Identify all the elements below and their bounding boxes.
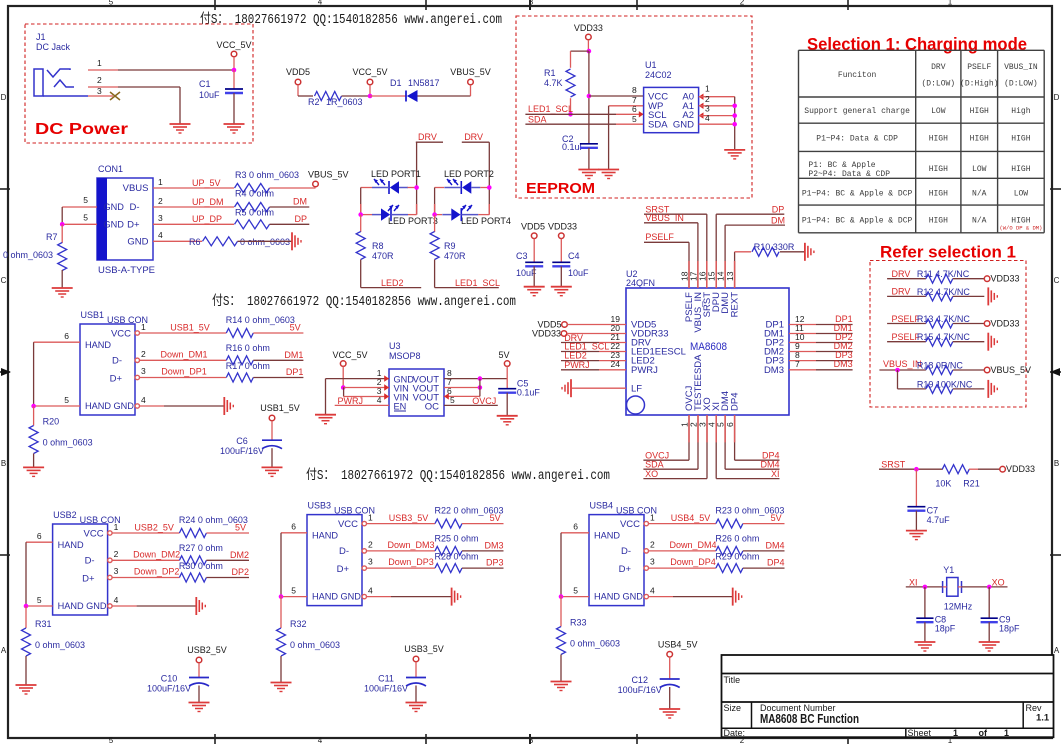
junction USB3 rail (279, 594, 284, 599)
wire USB2 D- row (112, 559, 179, 561)
USB3 pin 3 D+ (362, 566, 366, 570)
svg-text:5: 5 (632, 114, 637, 124)
CON1 pin 3 row (153, 223, 234, 225)
svg-text:R14 0 ohm_0603: R14 0 ohm_0603 (226, 315, 295, 325)
arrow into U3 pin6 (444, 393, 449, 399)
svg-text:18pF: 18pF (999, 624, 1020, 634)
svg-text:100uF/16V: 100uF/16V (147, 684, 191, 694)
svg-text:3: 3 (650, 557, 655, 567)
USB4 pin 4 GND (644, 594, 648, 598)
svg-text:DM3: DM3 (764, 365, 784, 376)
power port VDD5 (c3) (531, 233, 537, 239)
USB4 pin 2 D- (644, 549, 648, 553)
svg-text:2: 2 (740, 0, 745, 7)
resistor R17b zigzag (226, 373, 253, 382)
svg-text:5: 5 (83, 213, 88, 223)
U1 pin 4 GND (699, 123, 735, 125)
svg-text:R2: R2 (308, 97, 320, 107)
svg-text:14: 14 (716, 271, 726, 281)
CON1 pin 5 lower (62, 223, 97, 225)
USB3 pin 1 VCC (362, 521, 366, 525)
svg-text:VBUS_IN: VBUS_IN (1004, 63, 1038, 72)
ground for C1 (224, 123, 245, 125)
wire pin4 to power ground (649, 596, 674, 598)
svg-text:VBUS_5V: VBUS_5V (991, 365, 1032, 375)
U2 pin 20 VDDR33 with power port VDD33 (561, 331, 567, 337)
svg-text:HIGH: HIGH (1011, 135, 1030, 144)
DC Power dashed box (25, 24, 253, 143)
ground for C3 (524, 286, 545, 288)
svg-text:R33: R33 (570, 618, 587, 628)
svg-text:DP3: DP3 (486, 558, 504, 568)
svg-text:5V: 5V (235, 523, 246, 533)
svg-text:6: 6 (573, 522, 578, 532)
svg-text:HIGH: HIGH (929, 217, 948, 226)
wire CON1 left rail (61, 207, 63, 224)
svg-text:Down_DM1: Down_DM1 (160, 349, 207, 359)
svg-text:VBUS_IN: VBUS_IN (883, 359, 922, 369)
svg-text:5V: 5V (771, 513, 782, 523)
svg-text:DP1: DP1 (286, 367, 304, 377)
svg-text:1.1: 1.1 (1036, 713, 1050, 724)
svg-text:DM: DM (771, 215, 785, 225)
svg-text:R18 0R/NC: R18 0R/NC (917, 361, 964, 371)
title block frame (722, 655, 1054, 737)
svg-text:Support general charge: Support general charge (804, 107, 910, 116)
svg-text:DC Jack: DC Jack (36, 42, 71, 52)
svg-text:R27 0 ohm: R27 0 ohm (179, 543, 223, 553)
svg-text:Size: Size (724, 703, 742, 713)
svg-text:R9: R9 (444, 241, 456, 251)
svg-text:LED2: LED2 (381, 278, 404, 288)
svg-text:3: 3 (114, 566, 119, 576)
J1 pin 1 (88, 69, 118, 71)
wire left rail group1 (360, 188, 362, 215)
svg-text:B: B (1054, 459, 1059, 468)
svg-text:D-: D- (85, 556, 95, 567)
wire USB4 D+ row (649, 567, 716, 569)
svg-text:LED1_SCL: LED1_SCL (528, 104, 573, 114)
svg-text:XI: XI (771, 469, 780, 479)
svg-text:HAND: HAND (58, 540, 84, 550)
svg-text:DRV: DRV (464, 132, 483, 142)
CON1 pin 5 upper (62, 206, 97, 208)
USB2 pin 3 D+ (108, 575, 112, 579)
svg-text:C11: C11 (378, 674, 394, 684)
svg-text:4: 4 (114, 595, 119, 605)
svg-text:Down_DP2: Down_DP2 (134, 567, 180, 577)
svg-text:3: 3 (368, 557, 373, 567)
svg-text:1: 1 (1004, 728, 1009, 738)
svg-text:C10: C10 (161, 674, 178, 684)
USB4 pin 6 HAND (561, 532, 589, 534)
svg-text:Title: Title (724, 675, 741, 685)
svg-text:D+: D+ (110, 374, 123, 385)
junction VDD33 branch (587, 49, 592, 54)
svg-text:P1~P4: BC & Apple & DCP: P1~P4: BC & Apple & DCP (802, 217, 913, 226)
svg-text:DC Power: DC Power (35, 121, 128, 138)
svg-text:HIGH: HIGH (929, 190, 948, 199)
svg-text:2: 2 (141, 349, 146, 359)
power ground for R6 (291, 232, 293, 250)
junction A2 rail (732, 113, 737, 118)
svg-text:VCC_5V: VCC_5V (216, 40, 251, 50)
ground for R7 (52, 287, 73, 289)
svg-text:CON1: CON1 (98, 164, 123, 174)
wire WP pin row 7 and rail to ground (609, 105, 644, 107)
svg-text:XI: XI (909, 578, 918, 588)
svg-text:P1~P4: BC & Apple & DCP: P1~P4: BC & Apple & DCP (802, 190, 913, 199)
svg-text:R16 0 ohm: R16 0 ohm (226, 343, 270, 353)
wire USB2 left rail (25, 542, 27, 606)
svg-text:(W/O DP & DM): (W/O DP & DM) (999, 225, 1042, 232)
svg-text:4: 4 (705, 113, 710, 123)
ground for C5 (497, 415, 518, 417)
svg-text:Funciton: Funciton (838, 71, 877, 80)
ground for C6 (262, 466, 283, 468)
svg-text:PSELF: PSELF (645, 232, 674, 242)
svg-text:0 ohm_0603: 0 ohm_0603 (290, 640, 340, 650)
svg-text:0 ohm_0603: 0 ohm_0603 (570, 639, 620, 649)
svg-text:DRV: DRV (931, 63, 946, 72)
svg-text:2: 2 (114, 549, 119, 559)
svg-text:5: 5 (64, 395, 69, 405)
power port 5V (u3) (504, 361, 510, 367)
svg-text:Sheet: Sheet (908, 728, 932, 738)
wire LED4 row (435, 214, 442, 216)
svg-text:24QFN: 24QFN (626, 278, 655, 288)
resistor R6b zigzag row3 (235, 220, 270, 229)
power ground (R15 4.7K/NC) (987, 333, 989, 351)
power ground (usb pin4) (451, 588, 453, 606)
svg-text:Down_DM4: Down_DM4 (669, 540, 716, 550)
U2 pin 7 DM3 (789, 369, 816, 371)
svg-text:USB1: USB1 (81, 310, 105, 320)
svg-text:DM: DM (293, 197, 307, 207)
wire VIN pin3 row (342, 387, 344, 389)
wire PSELF to pin18 (644, 241, 689, 243)
svg-text:R1: R1 (544, 68, 556, 78)
power port VBUS_5V (con1) (313, 181, 319, 187)
svg-text:USB2: USB2 (53, 510, 77, 520)
svg-text:0 ohm_0603: 0 ohm_0603 (240, 237, 290, 247)
svg-text:R26 0 ohm: R26 0 ohm (715, 533, 759, 543)
svg-text:D+: D+ (82, 574, 95, 585)
svg-text:LOW: LOW (931, 107, 946, 116)
svg-text:N/A: N/A (972, 190, 987, 199)
wire VDD33 rail (588, 51, 590, 144)
wire refer row R13 4.7K/NC (887, 323, 926, 325)
wire DRV rail 2 (488, 142, 490, 214)
svg-text:DRV: DRV (418, 132, 437, 142)
svg-text:USB4_5V: USB4_5V (671, 513, 711, 523)
svg-text:GND: GND (104, 220, 125, 230)
svg-text:VDD5: VDD5 (521, 222, 545, 232)
svg-text:付S： 18027661972 QQ:1540182856: 付S： 18027661972 QQ:1540182856 www.angere… (200, 11, 502, 28)
svg-text:SDA: SDA (648, 120, 668, 131)
svg-text:5: 5 (291, 586, 296, 596)
wire branch to R1 (571, 50, 589, 52)
wire U2 pin2 SDA (697, 415, 699, 469)
wire SRST to pin16 (644, 213, 707, 215)
LED PORT4 (460, 208, 462, 221)
svg-text:R28 0 ohm: R28 0 ohm (435, 551, 479, 561)
resistor R28b zigzag (435, 564, 462, 573)
junction VOUT7 (478, 385, 483, 390)
connector USB2 body (53, 524, 108, 615)
svg-text:4: 4 (158, 230, 163, 240)
wire USB3 vcc row (367, 523, 436, 525)
power ground (r19) (987, 380, 989, 398)
resistor R6 0 ohm_0603 (203, 237, 238, 246)
svg-text:R25 0 ohm: R25 0 ohm (435, 533, 479, 543)
resistor R2 1R_0603 (315, 92, 342, 101)
svg-text:D-: D- (339, 546, 349, 557)
wire U2 pin4 XI (715, 415, 717, 479)
svg-text:10uF: 10uF (568, 268, 589, 278)
svg-text:PWRJ: PWRJ (564, 360, 590, 370)
wire LED2 row (435, 187, 444, 189)
IC U2 MA8608 body (626, 288, 789, 415)
svg-text:R11 4.7K/NC: R11 4.7K/NC (917, 269, 970, 279)
wire LED1_SCL row (525, 113, 616, 115)
svg-text:USB2_5V: USB2_5V (134, 523, 174, 533)
USB1 pin 3 D+ (135, 375, 139, 379)
svg-text:5: 5 (37, 595, 42, 605)
svg-text:VDD33: VDD33 (574, 23, 603, 33)
svg-text:Down_DP4: Down_DP4 (670, 557, 716, 567)
svg-text:1: 1 (948, 0, 953, 7)
svg-text:2: 2 (705, 94, 710, 104)
wire USB4 D- row (649, 550, 716, 552)
svg-text:D-: D- (112, 356, 122, 367)
svg-text:2: 2 (158, 196, 163, 206)
capacitor C9 18pF (988, 587, 990, 618)
svg-text:DRV: DRV (892, 287, 911, 297)
svg-text:A: A (1054, 646, 1060, 655)
U2 LF pin with power ground (572, 387, 626, 389)
U1 pin 1 A0 (699, 94, 704, 100)
svg-text:Down_DM3: Down_DM3 (387, 540, 434, 550)
svg-text:HIGH: HIGH (1011, 165, 1030, 174)
junction VCC_5V (368, 94, 373, 99)
wire OC pin5 row (444, 404, 498, 406)
crystal Y1 12MHz (942, 581, 944, 593)
resistor R9 470R (434, 215, 436, 232)
svg-text:USB1_5V: USB1_5V (260, 403, 300, 413)
svg-text:4: 4 (318, 736, 323, 744)
svg-text:5: 5 (83, 195, 88, 205)
svg-text:UP_DM: UP_DM (192, 197, 224, 207)
wire USB3 left rail (280, 533, 282, 597)
svg-text:C4: C4 (568, 251, 580, 261)
svg-text:U3: U3 (389, 341, 401, 351)
svg-text:100uF/16V: 100uF/16V (220, 446, 264, 456)
svg-text:P1~P4: Data & CDP: P1~P4: Data & CDP (816, 135, 898, 144)
resistor R3 0 ohm_0603 (235, 184, 270, 193)
svg-text:R29 0 ohm: R29 0 ohm (715, 551, 759, 561)
Refer selection dashed box (870, 261, 1026, 408)
wire DRV rail 1 (416, 142, 418, 214)
svg-text:DP4: DP4 (762, 451, 780, 461)
svg-text:R8: R8 (372, 241, 384, 251)
svg-text:3: 3 (158, 213, 163, 223)
svg-text:LOW: LOW (1014, 190, 1029, 199)
power port VDD33 (c4) (559, 233, 565, 239)
svg-text:C1: C1 (199, 79, 211, 89)
svg-text:R5 0 ohm: R5 0 ohm (235, 208, 274, 218)
svg-text:LOW: LOW (972, 165, 987, 174)
power ground for R10 (804, 243, 806, 261)
svg-text:DP: DP (772, 205, 785, 215)
power ground (R12 4.7K/NC) (987, 287, 989, 305)
svg-text:R20: R20 (43, 417, 60, 427)
charging mode table (799, 49, 1045, 51)
svg-text:VCC_5V: VCC_5V (352, 67, 387, 77)
svg-text:3: 3 (97, 86, 102, 96)
svg-text:DP4: DP4 (730, 393, 741, 411)
svg-text:SRST: SRST (881, 460, 906, 470)
svg-text:1: 1 (650, 513, 655, 523)
svg-text:PWRJ: PWRJ (631, 365, 658, 376)
junction LED1/DRV rail (414, 185, 419, 190)
svg-text:VDD33: VDD33 (548, 222, 577, 232)
svg-text:1R_0603: 1R_0603 (326, 97, 363, 107)
wire USB3 D- row (367, 550, 436, 552)
wire R3 to VBUS_5V (270, 187, 316, 189)
wire USB1 left rail (33, 342, 35, 406)
J1 pin 3 (88, 95, 113, 97)
ground for R20 (23, 466, 44, 468)
junction GND rail (732, 122, 737, 127)
svg-text:5V: 5V (498, 350, 509, 360)
svg-text:R17 0 ohm: R17 0 ohm (226, 361, 270, 371)
svg-text:MSOP8: MSOP8 (389, 351, 421, 361)
CON1 pin 2 row (153, 206, 234, 208)
junction VCC_5V/VIN (341, 385, 346, 390)
junction SRST/C7 (914, 467, 919, 472)
svg-text:USB4_5V: USB4_5V (658, 639, 698, 649)
svg-text:Refer selection 1: Refer selection 1 (880, 244, 1016, 262)
svg-text:J1: J1 (36, 32, 46, 42)
svg-text:C: C (1054, 276, 1060, 285)
USB3 pin 6 HAND (281, 532, 307, 534)
wire VBUS_IN row (879, 369, 926, 371)
connector J1 jack symbol (34, 69, 43, 96)
U2 pin 19 VDD5 with power port (562, 322, 568, 328)
USB4 pin 3 D+ (644, 566, 648, 570)
svg-text:(D:High): (D:High) (960, 80, 998, 89)
USB1 pin 2 D- (135, 358, 139, 362)
USB2 pin 1 VCC (108, 531, 112, 535)
U2 pin 9 DM2 (789, 351, 816, 353)
svg-text:High: High (1011, 107, 1030, 116)
svg-text:LED PORT4: LED PORT4 (461, 216, 511, 226)
USB2 pin 5 HAND (26, 605, 53, 607)
USB3 pin 4 GND (362, 594, 366, 598)
svg-text:LED PORT1: LED PORT1 (371, 169, 421, 179)
junction USB1 rail (31, 404, 36, 409)
wire USB3 D+ row (367, 567, 436, 569)
USB1 pin 5 HAND (34, 405, 80, 407)
svg-text:C7: C7 (927, 506, 939, 516)
svg-text:Down_DM2: Down_DM2 (133, 549, 180, 559)
svg-text:USB2_5V: USB2_5V (187, 645, 227, 655)
wire D1 to VBUS_5V (418, 95, 471, 97)
svg-text:VDD33: VDD33 (1006, 464, 1035, 474)
svg-text:8: 8 (632, 85, 637, 95)
svg-text:0 ohm_0603: 0 ohm_0603 (3, 250, 53, 260)
svg-text:UP_5V: UP_5V (192, 178, 221, 188)
svg-text:付S： 18027661972 QQ:1540182856: 付S： 18027661972 QQ:1540182856 www.angere… (306, 467, 610, 484)
svg-text:Rev: Rev (1026, 703, 1043, 713)
wire U3 GND row to ground (326, 378, 390, 380)
svg-text:PSELF: PSELF (967, 63, 991, 72)
svg-text:of: of (979, 728, 988, 738)
svg-text:USB3_5V: USB3_5V (389, 513, 429, 523)
ground for C9 (979, 641, 1000, 643)
wire USB2 D+ row (112, 577, 179, 579)
wire to LED2 net label (361, 287, 422, 289)
svg-text:R30 0 ohm: R30 0 ohm (179, 561, 223, 571)
svg-text:DM4: DM4 (760, 460, 779, 470)
wire USB1 vcc row (140, 332, 227, 334)
svg-text:12MHz: 12MHz (944, 602, 973, 612)
wire refer row R12 4.7K/NC (887, 295, 926, 297)
power port VBUS_5V (r18) (984, 367, 990, 373)
wire VBUS_IN to pin17 (644, 222, 698, 224)
svg-text:18pF: 18pF (935, 624, 956, 634)
svg-text:MA8608: MA8608 (690, 341, 727, 353)
USB2 pin 6 HAND (26, 541, 53, 543)
svg-text:OC: OC (425, 402, 439, 413)
svg-text:2: 2 (650, 540, 655, 550)
USB3 pin 5 HAND (281, 596, 307, 598)
svg-text:P1: BC & Apple: P1: BC & Apple (808, 161, 875, 170)
svg-text:B: B (1, 459, 6, 468)
svg-text:5: 5 (573, 586, 578, 596)
svg-text:N/A: N/A (972, 217, 987, 226)
svg-text:REXT: REXT (730, 292, 741, 318)
ground for C11 (406, 702, 427, 704)
svg-text:D: D (1054, 93, 1060, 102)
svg-text:付S： 18027661972 QQ:1540182856: 付S： 18027661972 QQ:1540182856 www.angere… (212, 293, 516, 310)
svg-text:D1: D1 (390, 78, 402, 88)
svg-text:13: 13 (725, 271, 735, 281)
svg-text:4: 4 (318, 0, 323, 7)
svg-text:VCC_5V: VCC_5V (332, 350, 367, 360)
resistor R30b zigzag (179, 573, 206, 582)
LED PORT2 (460, 181, 462, 194)
U1 pin 3 A2 (699, 112, 704, 118)
ground for C2 (578, 169, 599, 171)
svg-text:EEPROM: EEPROM (526, 181, 595, 197)
USB1 pin 4 GND (135, 404, 139, 408)
wire pin4 to power ground (140, 405, 165, 407)
svg-text:R4 0 ohm: R4 0 ohm (235, 189, 274, 199)
USB1 pin 1 VCC (135, 331, 139, 335)
svg-text:Y1: Y1 (943, 565, 954, 575)
wire USB4 vcc row (649, 523, 716, 525)
svg-text:HAND: HAND (594, 592, 620, 602)
power ground (usb pin4) (195, 597, 197, 615)
junction VCC_5V/C1 (232, 68, 237, 73)
svg-text:DM4: DM4 (765, 540, 784, 550)
wire VOUT pin7 row (444, 387, 480, 389)
svg-text:1: 1 (158, 177, 163, 187)
wire pin4 to power ground (367, 596, 392, 598)
wire VOUT tie rail (479, 379, 481, 397)
